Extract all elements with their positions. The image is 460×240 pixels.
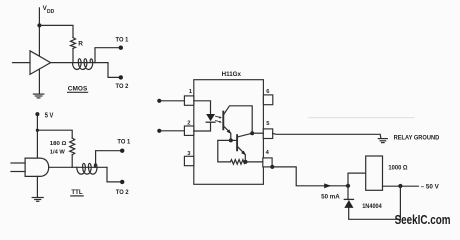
svg-text:H11Gx: H11Gx — [222, 71, 242, 78]
wire CMOS triangle to ground — [38, 69, 40, 94]
wire R bottom — [72, 49, 74, 63]
wire pin 4 down to emitter rail — [272, 167, 348, 186]
node VDD junction dot — [37, 23, 41, 27]
ground CMOS — [33, 93, 43, 95]
svg-text:TO 1: TO 1 — [117, 138, 130, 145]
svg-text:RELAY GROUND: RELAY GROUND — [394, 135, 440, 142]
pin 1 box — [184, 96, 193, 105]
resistor 180 ohm — [70, 138, 75, 155]
gate TTL AND shape — [25, 158, 49, 176]
wire resistor bottom — [71, 155, 73, 168]
resistor R — [71, 38, 76, 49]
svg-text:TTL: TTL — [71, 189, 82, 196]
wire TTL input 2 — [11, 171, 25, 173]
wire pin 5 to relay ground — [273, 133, 381, 138]
transistor Q2 collector — [238, 133, 253, 137]
node TO2 dot CMOS — [119, 75, 123, 79]
wire CMOS output — [51, 62, 108, 64]
wire 5V down to gate — [36, 114, 38, 158]
relay coil box 1000 ohm — [366, 156, 383, 190]
node TO2 dot TTL — [120, 180, 124, 184]
LED wire from pin 1 — [194, 101, 211, 114]
wire Q2 base — [231, 139, 237, 141]
wire TO2 branch CMOS — [108, 63, 119, 78]
svg-text:1000 Ω: 1000 Ω — [388, 165, 407, 172]
transistor Q2 emitter — [238, 147, 246, 162]
svg-text:1/4 W: 1/4 W — [50, 149, 65, 155]
svg-text:1N4004: 1N4004 — [362, 204, 382, 210]
svg-text:180 Ω: 180 Ω — [50, 141, 67, 147]
node 5V junction dot — [36, 129, 39, 132]
svg-text:TO 2: TO 2 — [116, 83, 129, 90]
wire 5V to resistor 180 — [37, 130, 72, 138]
node input dot pin 1 — [157, 99, 161, 103]
node pin 4 corner dot — [270, 165, 274, 169]
svg-text:5 V: 5 V — [45, 110, 54, 119]
svg-text:DD: DD — [47, 9, 55, 15]
inductor coil CMOS winding — [73, 59, 93, 70]
node emitter rail junction dot — [346, 184, 350, 188]
wire coil to -50V — [383, 185, 419, 187]
LED D1 triangle — [206, 114, 215, 121]
transistor Q1 collector — [224, 106, 252, 133]
diode 1N4004 triangle — [344, 200, 353, 208]
diode 1N4004 cathode bar — [344, 198, 353, 200]
node VDD label — [43, 5, 55, 15]
node Q1 emitter / Q2 base junction dot — [229, 138, 233, 142]
svg-text:2: 2 — [187, 121, 190, 127]
wire to pin 4 — [246, 161, 263, 163]
LED wire to pin 2 — [194, 122, 211, 131]
node TO1 dot CMOS — [119, 46, 123, 50]
svg-text:TO 2: TO 2 — [116, 189, 129, 196]
wire TTL output — [49, 166, 107, 168]
transistor Q1 emitter arrowhead — [227, 129, 232, 134]
wire TO1 branch CMOS — [95, 48, 119, 63]
svg-text:– 50 V: – 50 V — [421, 183, 440, 190]
wire TTL gate to ground — [36, 176, 38, 197]
node 5V dot — [35, 112, 39, 116]
svg-text:SeekIC.com: SeekIC.com — [395, 212, 451, 227]
IC body H11Gx DIP outline — [194, 80, 264, 185]
pin 3 box — [184, 156, 193, 165]
wire input pin 1 — [159, 100, 184, 102]
node collector junction dot — [250, 131, 254, 135]
ground TTL — [32, 197, 43, 199]
svg-text:R: R — [78, 40, 83, 47]
wire VDD to resistor R — [39, 25, 73, 37]
pin 5 box — [263, 129, 272, 139]
node -50V junction dot — [398, 184, 402, 188]
wire TO2 branch TTL — [107, 167, 121, 182]
node input dot pin 2 — [157, 129, 161, 133]
node emitter-resistor junction dot — [244, 160, 248, 164]
wire base-emitter resistor left loop — [218, 140, 231, 162]
light arrow 1 — [216, 116, 221, 117]
transistor Q2 base bar — [236, 135, 238, 150]
arrowhead 50 mA — [324, 183, 331, 188]
wire dot down to diode — [347, 186, 349, 199]
svg-text:CMOS: CMOS — [68, 86, 88, 93]
pin 4 box — [263, 158, 272, 167]
transistor Q2 emitter arrowhead — [241, 151, 246, 156]
pin 2 box — [184, 126, 193, 135]
wire VDD vertical — [38, 8, 40, 56]
ground relay — [378, 138, 387, 140]
transistor Q1 emitter — [224, 126, 231, 140]
artifact faint line — [309, 117, 414, 119]
wire TO1 branch TTL — [96, 151, 121, 168]
wire input pin 2 — [159, 130, 184, 132]
inductor coil TTL winding — [77, 163, 97, 174]
wire CMOS input — [13, 62, 31, 64]
svg-text:50 mA: 50 mA — [321, 194, 340, 201]
LED cathode bar — [206, 121, 215, 123]
pin 6 box — [263, 95, 272, 105]
wire diode bottom rail — [349, 186, 401, 219]
wire TTL input 1 — [11, 162, 25, 164]
wire collector to pin 5 — [252, 132, 263, 134]
resistor RBE internal — [230, 160, 245, 165]
light arrow 2 — [216, 121, 221, 122]
transistor Q1 base bar — [222, 112, 224, 130]
op-amp CMOS buffer triangle — [30, 51, 51, 75]
svg-text:TO 1: TO 1 — [116, 37, 129, 44]
wire up to relay coil — [348, 173, 366, 186]
node TO1 dot TTL — [120, 149, 124, 153]
